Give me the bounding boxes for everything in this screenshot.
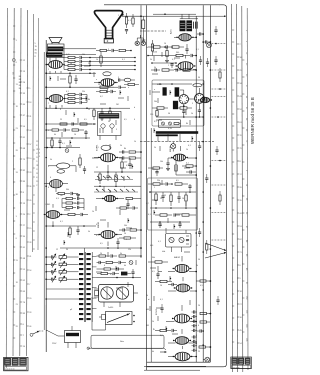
resistor R33 <box>162 69 174 71</box>
right bus c <box>209 5 211 362</box>
right strip capacitor a <box>214 56 217 65</box>
svg-text:2k: 2k <box>160 198 162 200</box>
right strip capacitor b <box>215 146 218 155</box>
resistor RG1 <box>99 255 110 257</box>
svg-text:33: 33 <box>16 172 18 174</box>
IF trimmer 3 <box>169 237 174 242</box>
pot dots <box>133 315 135 323</box>
wire ladder left h289 <box>46 288 84 290</box>
svg-text:15: 15 <box>88 109 90 111</box>
resistor R45 vertical <box>151 40 153 56</box>
right stamp block 3 <box>245 358 250 364</box>
bus junction dots left <box>45 72 47 257</box>
svg-text:4k: 4k <box>152 351 154 353</box>
svg-text:0,5: 0,5 <box>176 180 179 182</box>
svg-text:30: 30 <box>66 249 68 251</box>
bottom rail 3 <box>144 369 200 371</box>
IF can 2 box <box>166 234 192 248</box>
dial scale dark bar <box>99 113 120 118</box>
left margin numbers col A <box>16 40 18 328</box>
resistor RG2 <box>119 255 130 257</box>
wire V5 sides <box>168 157 197 159</box>
wire V8 leads <box>174 30 197 38</box>
right margin rule 2 <box>232 4 233 372</box>
tube V11 rectifier <box>173 352 193 361</box>
tuning gang box <box>99 285 134 303</box>
funnel neck rung 3 <box>106 35 113 37</box>
svg-text:0,5: 0,5 <box>84 119 87 121</box>
svg-text:7: 7 <box>124 187 125 189</box>
rows VD <box>0 0 1 1</box>
svg-text:12: 12 <box>56 249 58 251</box>
resistor RD2 vertical <box>69 226 71 238</box>
component value labels <box>48 15 203 353</box>
svg-text:28: 28 <box>16 150 18 152</box>
svg-text:5: 5 <box>118 77 119 79</box>
pilot lamp bottom <box>205 357 210 362</box>
capacitor CD2 <box>76 226 79 235</box>
node V3 cathode <box>183 105 185 107</box>
svg-text:8: 8 <box>60 109 61 111</box>
power unit box <box>65 331 81 343</box>
svg-text:25: 25 <box>198 351 200 353</box>
resistor R31b <box>62 202 76 204</box>
svg-text:1: 1 <box>154 187 155 189</box>
capacitor C32 <box>151 68 160 71</box>
label osc values <box>124 148 127 164</box>
wire phase split <box>152 92 195 99</box>
tube V2 ECC40 <box>47 95 66 103</box>
resistor R60 <box>148 183 165 185</box>
ground sym G9 <box>141 40 145 42</box>
svg-text:3k: 3k <box>120 253 122 255</box>
svg-text:20: 20 <box>100 253 102 255</box>
stamp block 3 <box>20 358 27 365</box>
svg-text:0,5: 0,5 <box>154 121 157 123</box>
right strip capacitor c <box>216 296 219 305</box>
capacitor C60 <box>166 182 173 185</box>
wire row1 3 <box>86 69 136 71</box>
left main bus <box>45 40 47 352</box>
svg-text:9: 9 <box>48 130 49 132</box>
mains transformer core bar 1 <box>180 21 185 31</box>
label 300 <box>176 52 179 54</box>
resistor R7 vertical <box>100 52 102 67</box>
capacitor C66 <box>178 222 181 228</box>
ground V2b <box>76 194 80 197</box>
capacitor C83 <box>106 172 109 181</box>
capacitor CF2 <box>133 206 138 209</box>
IF coil block A <box>163 87 167 95</box>
node funnel top right <box>122 14 124 16</box>
wire trim 1 <box>45 264 78 266</box>
wire diag bottomleft <box>46 305 64 336</box>
svg-text:0,3: 0,3 <box>56 198 59 200</box>
svg-text:0,2: 0,2 <box>100 96 103 98</box>
stamp box frame <box>4 357 28 370</box>
svg-text:2k: 2k <box>96 189 98 191</box>
capacitor C8b <box>111 90 116 93</box>
center bus c <box>150 128 152 362</box>
funnel neck rung 2 <box>106 32 113 34</box>
resistor R11 <box>64 60 79 62</box>
IF can trimmer 1 <box>161 122 164 125</box>
capacitor C71 <box>168 283 177 286</box>
resistor R63 vertical <box>170 192 172 206</box>
bandfilter coil oval 2 <box>57 170 65 174</box>
resistor R3 vertical <box>125 13 127 28</box>
center bus a <box>140 5 142 258</box>
wire det row4 <box>150 221 190 223</box>
wire VE leads <box>94 222 122 246</box>
tube VE EBF80 <box>99 230 118 238</box>
chassis dash line 2 <box>140 30 166 32</box>
svg-text:0,1: 0,1 <box>66 91 69 93</box>
capacitor CG6 <box>113 272 119 275</box>
svg-text:2x50: 2x50 <box>153 52 157 54</box>
wire V2 pins <box>45 98 62 108</box>
bus capacitor e <box>198 142 201 151</box>
left margin rule 4 <box>27 10 28 356</box>
svg-text:83: 83 <box>19 85 21 87</box>
resistor R81 <box>129 157 141 159</box>
left margin rule 5 <box>32 14 35 252</box>
resistor R62 vertical <box>155 192 157 205</box>
chassis dash line <box>140 141 214 143</box>
svg-text:0,2: 0,2 <box>160 335 163 337</box>
wire row1 2 <box>86 65 136 67</box>
resistor R28 <box>46 129 63 131</box>
capacitor C22 <box>80 101 87 104</box>
dial scale parts <box>101 124 114 133</box>
dial scale box <box>98 112 122 136</box>
dial lamp La1 <box>135 41 139 45</box>
wire v2 col links <box>65 95 88 103</box>
capacitor C30 <box>182 104 185 117</box>
svg-text:8: 8 <box>146 231 147 233</box>
left margin text blob 2 <box>35 43 38 58</box>
antenna terminal <box>87 347 89 349</box>
right strip resistor a <box>219 68 221 82</box>
resistor RM1 vertical <box>79 154 81 168</box>
bus capacitor f <box>205 174 208 183</box>
left inner bus <box>43 52 45 330</box>
resistor R6 <box>119 49 132 51</box>
pilot lamp small <box>171 144 176 149</box>
wire coil leads <box>48 166 76 172</box>
svg-text:30k: 30k <box>66 189 69 191</box>
svg-text:EBF80: EBF80 <box>170 145 172 152</box>
resistor R41 <box>148 46 165 48</box>
wire trafo down <box>50 58 56 63</box>
capacitor C52 <box>155 169 158 176</box>
capacitor C36 <box>206 58 209 67</box>
svg-text:0,5: 0,5 <box>100 243 103 245</box>
resistor R4 vertical <box>132 14 134 27</box>
pot left nub <box>99 315 106 320</box>
resistor RE2 <box>119 237 136 239</box>
funnel foot <box>104 39 113 44</box>
svg-text:50: 50 <box>70 63 72 65</box>
wire osc links <box>97 256 142 269</box>
IF can box <box>159 120 181 128</box>
resistor R30 <box>152 107 168 109</box>
big chassis box <box>91 335 164 348</box>
resistor R40 vertical <box>142 16 145 34</box>
svg-text:0,5: 0,5 <box>124 119 127 121</box>
left margin tick column D <box>33 150 35 249</box>
resistor R16 <box>100 86 114 88</box>
resistor R32 vertical <box>156 108 158 117</box>
label EL41 <box>157 84 163 86</box>
label AZ41 <box>170 28 173 34</box>
heater bus thick bar <box>156 131 198 134</box>
right stamp caption <box>232 365 251 369</box>
svg-text:25k: 25k <box>82 91 85 93</box>
wire dial drop <box>100 136 116 141</box>
capacitor CG1 <box>111 254 117 257</box>
svg-text:4k: 4k <box>160 225 162 227</box>
wire det row2 <box>149 191 196 193</box>
padder resistor P3 <box>59 276 71 283</box>
capacitor C30b <box>78 197 85 200</box>
resistor RF1 <box>126 197 141 199</box>
svg-text:8: 8 <box>16 62 17 64</box>
wire h108 run <box>46 107 130 109</box>
svg-text:0,1: 0,1 <box>172 59 175 61</box>
wire row1 1 <box>86 61 136 63</box>
wire trim 3 <box>45 278 78 280</box>
left margin tick column B <box>20 60 26 348</box>
svg-text:m m m m m: m m m m m <box>5 368 15 370</box>
svg-text:10k: 10k <box>82 54 85 56</box>
resistor R64 vertical <box>185 192 187 206</box>
resistor R21 <box>65 97 80 99</box>
svg-text:18: 18 <box>16 282 18 284</box>
output transformer winding 2 <box>47 53 62 57</box>
resistor R72 <box>196 280 211 282</box>
svg-text:0,1: 0,1 <box>158 241 161 243</box>
output transformer frame <box>48 44 65 58</box>
svg-text:10: 10 <box>164 43 166 45</box>
svg-text:2: 2 <box>72 161 73 163</box>
resistor R90 <box>200 312 211 314</box>
svg-text:50k: 50k <box>124 225 127 227</box>
label UCH81 <box>156 308 158 315</box>
tube V7 ECH81 <box>174 284 193 292</box>
capacitor C44 <box>191 54 197 57</box>
phone jack symbol <box>207 43 212 48</box>
svg-text:AM: AM <box>146 308 149 311</box>
resistor R22 <box>65 101 80 103</box>
resistor R84 vertical <box>115 172 117 185</box>
tube VD EF41 <box>44 211 63 219</box>
tuning indicator funnel <box>94 11 122 39</box>
right strip dots <box>215 43 221 162</box>
capacitor C33 <box>176 68 181 71</box>
svg-text:8: 8 <box>16 238 17 240</box>
wire h226 <box>46 225 96 227</box>
svg-text:8: 8 <box>104 265 105 267</box>
right margin tick column B <box>237 44 243 345</box>
resistor R71 <box>155 280 172 282</box>
svg-text:120: 120 <box>124 162 127 164</box>
svg-text:2M: 2M <box>116 104 119 106</box>
resistor R31 <box>176 107 192 109</box>
label 50 <box>168 113 170 115</box>
schematic boundary right edge <box>147 5 227 367</box>
IF can trimmer 2 <box>168 122 171 125</box>
wire h147 <box>44 147 80 149</box>
svg-text:0,1: 0,1 <box>186 163 189 165</box>
capacitor C12 <box>80 64 86 67</box>
IF tube V1b EF41 <box>98 79 116 87</box>
right margin vertical numbers top <box>245 30 247 143</box>
trimmer capacitor T0 <box>46 254 56 261</box>
svg-text:25k: 25k <box>157 180 160 182</box>
wire ladder top <box>84 248 86 252</box>
capacitor CF1 <box>126 200 129 209</box>
capacitor C65 <box>158 222 161 228</box>
trimmer capacitor T1 <box>46 261 56 268</box>
wire VC bottom <box>107 169 109 172</box>
wire V5 bottom <box>176 174 197 176</box>
tube VC ECH81 <box>98 153 118 162</box>
tube V6 EBF80 <box>173 264 192 272</box>
capacitor C34 <box>170 63 173 68</box>
resistor R15 vertical <box>69 73 71 87</box>
capacitor C31b <box>78 201 85 204</box>
center bus b <box>146 5 148 370</box>
wire V10 <box>168 329 196 343</box>
capacitor C61 <box>188 184 191 191</box>
resistor R92 <box>199 346 211 348</box>
resistor R12 <box>64 64 79 66</box>
wire V7 <box>168 277 196 291</box>
IF can 2 parts <box>186 236 189 244</box>
resistor R29 <box>72 129 84 131</box>
capacitor C28 <box>45 128 70 131</box>
capacitor C35 <box>199 56 202 65</box>
vertical link col 64 <box>63 58 65 70</box>
resistor RG4 <box>100 268 116 270</box>
svg-text:0,1: 0,1 <box>196 49 199 51</box>
svg-text:5k: 5k <box>150 59 152 61</box>
svg-text:5k: 5k <box>88 231 90 233</box>
wire can2 leads <box>166 228 186 252</box>
resistor R82 vertical <box>121 158 123 172</box>
left margin small circle mark <box>12 59 15 62</box>
svg-text:0,1: 0,1 <box>96 235 99 237</box>
svg-text:WERNER mod 56 35 B: WERNER mod 56 35 B <box>250 97 255 144</box>
svg-text:0,5: 0,5 <box>152 271 155 273</box>
bottom rail 2 <box>144 365 206 367</box>
svg-text:0,1: 0,1 <box>128 20 131 22</box>
svg-text:5k: 5k <box>50 159 52 161</box>
padder resistor P2 <box>59 268 71 275</box>
svg-text:0,1: 0,1 <box>188 145 191 147</box>
resistor RE1 <box>130 229 142 231</box>
svg-text:10: 10 <box>74 134 76 136</box>
svg-text:25: 25 <box>164 195 166 197</box>
wire bottom left link <box>147 348 166 350</box>
label band kurz <box>149 298 151 300</box>
power unit bar <box>66 333 79 336</box>
band switch stems <box>85 252 93 322</box>
right margin title <box>250 97 255 144</box>
svg-text:6: 6 <box>134 119 135 121</box>
svg-text:0,1: 0,1 <box>148 214 151 216</box>
resistor R44 vertical <box>165 47 169 63</box>
left margin rule 2 <box>13 8 14 356</box>
svg-text:1k: 1k <box>186 149 188 151</box>
mains transformer cap lines <box>194 22 198 29</box>
wire stub verticals <box>50 52 192 331</box>
mains transformer core bar 2 <box>187 21 192 31</box>
output transformer winding 1 <box>48 47 63 51</box>
svg-text:2k: 2k <box>146 47 148 49</box>
svg-text:81: 81 <box>19 79 21 81</box>
right bus a <box>195 16 197 362</box>
svg-text:13: 13 <box>16 84 18 86</box>
wire V4 top <box>198 88 200 94</box>
resistor R8b <box>96 90 110 92</box>
bottom rail 1 <box>147 361 211 363</box>
band switch contact ladder <box>79 253 91 320</box>
resistor R26 <box>60 123 67 125</box>
bus capacitor g <box>198 228 201 237</box>
svg-text:1: 1 <box>168 65 169 67</box>
svg-text:1k: 1k <box>96 59 98 61</box>
svg-text:80: 80 <box>19 76 21 78</box>
resistor R34 <box>183 69 197 71</box>
svg-text:0,1: 0,1 <box>60 221 63 223</box>
resistor R28b vertical <box>51 138 53 148</box>
right margin rule 3 <box>237 4 238 372</box>
capacitor C20 <box>80 93 87 96</box>
wire VC leads <box>94 150 122 169</box>
bus junction dots right b <box>202 33 204 346</box>
padder resistor P1 <box>59 261 71 268</box>
capacitor C81 <box>119 156 128 159</box>
resistor RG3 <box>106 261 118 263</box>
wire VD leads <box>46 204 66 226</box>
IF trimmer 4 <box>179 237 184 242</box>
right bus b <box>202 5 204 362</box>
svg-text:6: 6 <box>48 187 49 189</box>
svg-text:30: 30 <box>198 77 200 79</box>
svg-text:50: 50 <box>108 121 110 123</box>
svg-text:0,25: 0,25 <box>152 169 156 171</box>
wire gang down <box>104 302 120 307</box>
svg-text:3: 3 <box>108 49 109 51</box>
svg-text:82: 82 <box>19 82 21 84</box>
stamp caption strip <box>4 367 26 371</box>
resistor RG5 <box>97 272 112 274</box>
wire h138 <box>46 137 90 139</box>
capacitor bank C96-C99 <box>192 335 198 351</box>
wire heater drop <box>158 134 180 142</box>
right strip capacitor d <box>214 26 217 35</box>
IF coil block B <box>175 87 180 96</box>
svg-text:25: 25 <box>60 119 62 121</box>
svg-text:3: 3 <box>16 216 17 218</box>
svg-text:8k: 8k <box>88 99 90 101</box>
wire V2b leads <box>44 184 68 192</box>
right margin tick column A <box>232 30 234 342</box>
trimmer capacitor T2 <box>46 268 56 275</box>
right stamp block 2 <box>238 358 243 364</box>
